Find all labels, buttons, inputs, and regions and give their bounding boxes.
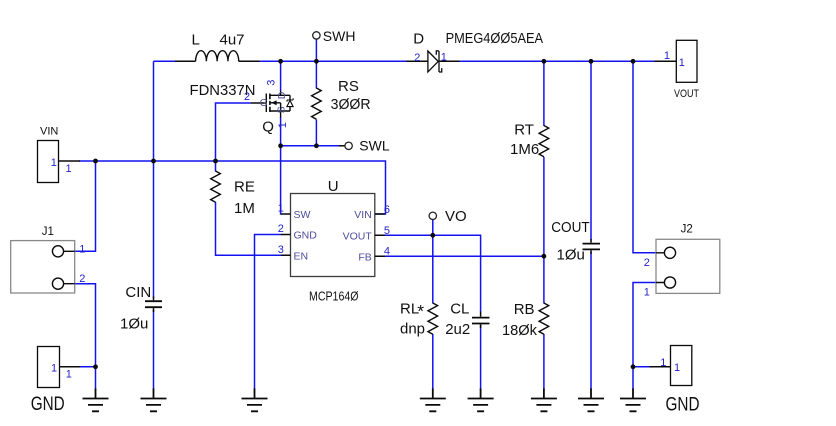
svg-text:1: 1 — [644, 287, 650, 299]
wire VO testpoint stub — [432, 219, 434, 235]
svg-text:Q: Q — [262, 118, 274, 135]
svg-text:VIN: VIN — [354, 209, 372, 221]
svg-text:2: 2 — [79, 273, 85, 285]
svg-text:U: U — [328, 178, 339, 195]
wire gate net from VIN rail — [216, 103, 252, 161]
wire VOUT pin5 net to VO and CL — [385, 235, 481, 312]
svg-text:3: 3 — [266, 80, 278, 86]
terminal GND right — [671, 346, 692, 386]
svg-text:1: 1 — [679, 57, 685, 69]
svg-text:dnp: dnp — [400, 320, 425, 337]
wire GND terminal right to junction — [633, 366, 650, 368]
terminal VIN — [38, 141, 59, 183]
testpoint SWL — [345, 142, 352, 149]
svg-text:2: 2 — [644, 257, 650, 269]
ground below CIN — [141, 389, 167, 412]
svg-text:RL: RL — [400, 301, 419, 318]
svg-text:GND: GND — [31, 393, 65, 415]
svg-text:2: 2 — [414, 52, 420, 64]
svg-text:2: 2 — [278, 223, 284, 235]
svg-text:RB: RB — [514, 301, 535, 318]
resistor RS — [312, 88, 322, 119]
svg-text:FB: FB — [358, 251, 371, 263]
wire SWL rail — [281, 145, 339, 147]
ground at J2/GND junction — [620, 389, 646, 412]
resistor RB — [539, 303, 549, 334]
wire top rail left segment — [154, 60, 177, 62]
capacitor COUT — [583, 244, 601, 250]
wire J2 pin2 from top rail — [633, 61, 656, 253]
svg-text:MCP164Ø: MCP164Ø — [309, 288, 359, 303]
wire GND terminal left to junction — [79, 366, 96, 368]
op-amp U1 MCP1640 box — [291, 194, 375, 277]
wire J2 pin1 to ground junction — [633, 283, 656, 391]
svg-text:S: S — [276, 106, 288, 113]
svg-text:1: 1 — [278, 203, 284, 215]
svg-text:2u2: 2u2 — [445, 321, 470, 338]
svg-text:4: 4 — [384, 246, 390, 258]
connector J1 — [11, 241, 75, 293]
svg-text:1: 1 — [66, 368, 72, 380]
svg-text:1: 1 — [277, 122, 289, 128]
svg-text:COUT: COUT — [551, 219, 590, 236]
svg-text:RE: RE — [234, 178, 255, 195]
transistor Q FDN337N — [266, 91, 293, 118]
svg-text:D: D — [276, 91, 288, 99]
wire left vertical from top rail to CIN and ground — [153, 61, 155, 390]
svg-text:1: 1 — [664, 50, 670, 62]
svg-text:*: * — [417, 301, 424, 321]
svg-text:1: 1 — [441, 52, 447, 64]
wire SWH testpoint vertical — [315, 39, 317, 61]
svg-text:GND: GND — [294, 230, 318, 242]
svg-text:D: D — [413, 30, 424, 47]
svg-text:VOUT: VOUT — [674, 88, 699, 100]
svg-text:3: 3 — [278, 244, 284, 256]
svg-text:1: 1 — [660, 357, 666, 369]
IC pin stubs — [281, 214, 385, 256]
svg-text:G: G — [260, 97, 268, 109]
wire RE top — [215, 161, 217, 172]
testpoint VO — [429, 212, 436, 219]
svg-text:6: 6 — [384, 204, 390, 216]
ground below CL — [468, 389, 494, 412]
diode D stubs — [407, 60, 460, 62]
wire CL bottom — [480, 325, 482, 390]
capacitor CIN — [145, 301, 162, 307]
svg-text:1M: 1M — [234, 200, 255, 217]
ground below RB — [531, 389, 557, 412]
wire VOUT terminal stub — [655, 60, 677, 62]
svg-text:5: 5 — [384, 225, 390, 237]
svg-text:1M6: 1M6 — [510, 141, 539, 158]
svg-text:J1: J1 — [42, 226, 54, 238]
svg-text:L: L — [192, 31, 200, 48]
svg-text:1: 1 — [674, 362, 680, 374]
wire SWL stub black — [339, 145, 345, 147]
svg-text:1Øu: 1Øu — [557, 246, 585, 263]
svg-text:RS: RS — [338, 78, 359, 95]
inductor L1 stubs — [175, 60, 260, 62]
wire gate stub black — [251, 102, 266, 104]
svg-text:VIN: VIN — [40, 125, 58, 137]
svg-text:1: 1 — [66, 163, 72, 175]
wire RB vertical — [543, 256, 545, 390]
svg-text:SW: SW — [294, 209, 311, 221]
svg-text:2: 2 — [244, 91, 250, 103]
svg-text:VOUT: VOUT — [343, 231, 373, 243]
svg-text:3ØØR: 3ØØR — [331, 96, 371, 113]
wire GND terminal left stub — [60, 366, 81, 368]
connector J2 — [656, 239, 720, 293]
svg-text:SWL: SWL — [359, 138, 390, 154]
wire RT vertical — [543, 61, 545, 256]
svg-text:18Øk: 18Øk — [502, 322, 537, 339]
wire J1 pin1 to VIN rail — [75, 161, 96, 251]
wire GND pin2 to ground — [255, 235, 282, 391]
wire GND terminal right stub — [650, 366, 671, 368]
wire RE bottom to EN pin — [216, 202, 282, 255]
ground below COUT — [578, 389, 604, 412]
ground below IC GND pin — [242, 389, 268, 412]
ground at J1/GND junction — [83, 389, 109, 412]
wire source to SW pin vertical — [280, 117, 283, 214]
svg-text:1: 1 — [51, 363, 57, 375]
capacitor CL — [472, 318, 490, 324]
diode D PMEG4005AEA — [428, 51, 442, 72]
terminal VOUT — [676, 40, 697, 82]
wire top rail right segment — [459, 60, 655, 62]
wire RS top and bottom — [315, 61, 317, 146]
wire FB net — [385, 255, 544, 257]
wire MOSFET drain vertical — [280, 61, 282, 91]
svg-text:4u7: 4u7 — [220, 31, 245, 48]
svg-text:CIN: CIN — [125, 284, 151, 301]
svg-text:1Øu: 1Øu — [120, 316, 148, 333]
terminal GND left — [38, 347, 60, 388]
resistor RE — [211, 171, 221, 202]
wire top rail mid segment — [259, 60, 407, 62]
wire J1 pin2 to ground junction — [75, 284, 96, 390]
testpoint SWH — [313, 32, 320, 39]
wire RL vertical — [432, 235, 434, 390]
svg-text:RT: RT — [514, 121, 534, 138]
wire VIN terminal stub — [59, 160, 81, 162]
ground below RL — [420, 389, 446, 412]
svg-text:CL: CL — [450, 300, 469, 317]
inductor L 4u7 — [196, 51, 239, 62]
svg-text:EN: EN — [294, 251, 309, 263]
wire COUT vertical — [590, 61, 592, 390]
svg-text:SWH: SWH — [323, 28, 356, 44]
svg-text:J2: J2 — [681, 224, 693, 236]
svg-text:1: 1 — [79, 244, 85, 256]
svg-text:PMEG4ØØ5AEA: PMEG4ØØ5AEA — [446, 30, 543, 47]
resistor RL — [428, 303, 438, 334]
svg-text:1: 1 — [51, 157, 57, 169]
svg-text:VO: VO — [445, 208, 467, 225]
wire VIN rail to IC pin 6 — [79, 161, 386, 214]
resistor RT — [539, 126, 549, 157]
svg-text:GND: GND — [666, 393, 700, 415]
